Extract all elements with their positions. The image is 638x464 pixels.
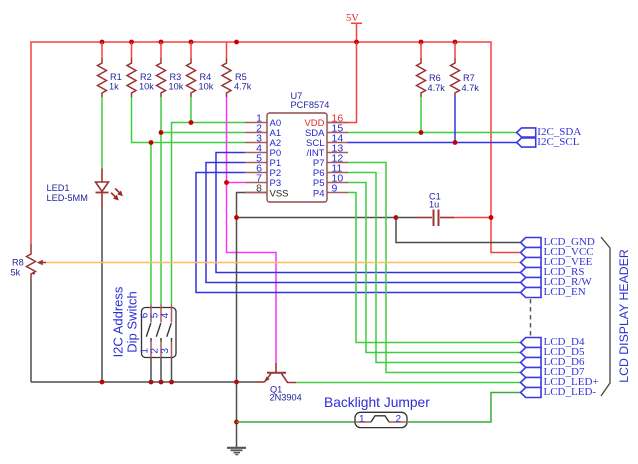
- resistor R4: [187, 42, 214, 97]
- wire R5 to P3 and backlight base: [227, 97, 277, 363]
- junction C1 right node: [489, 215, 494, 220]
- resistor R7: [451, 42, 480, 97]
- pin 13 /INT: [307, 142, 348, 159]
- transistor Q1: [257, 363, 302, 403]
- svg-text:LED1: LED1: [47, 183, 70, 193]
- svg-text:LCD DISPLAY HEADER: LCD DISPLAY HEADER: [617, 249, 631, 383]
- pin 10 P5: [313, 172, 348, 189]
- svg-text:R3: R3: [170, 72, 182, 82]
- wire P4 to LCD_D4: [347, 193, 520, 343]
- wire R8 bottom to ground rail: [30, 281, 32, 382]
- svg-text:VSS: VSS: [270, 189, 289, 200]
- junction P3/R5: [224, 180, 229, 185]
- dashed divider: [530, 299, 532, 337]
- pin 1 A0: [245, 112, 281, 129]
- wire P6 to LCD_D6: [347, 173, 520, 363]
- connector LCD_EN: [521, 286, 586, 298]
- connector LCD_D5: [521, 346, 585, 358]
- pin 3 A2: [245, 132, 281, 149]
- resistor R2: [127, 42, 154, 97]
- wire P0 to LCD_RS: [216, 153, 520, 273]
- resistor R6: [417, 42, 446, 97]
- dip switch pole 2 pins 5-2: [150, 305, 162, 383]
- ground rail: [31, 381, 257, 383]
- wire P7 to LCD_D7: [347, 163, 520, 373]
- wire gnd to jumper pin1: [237, 421, 356, 423]
- connector LCD_VCC: [521, 246, 594, 258]
- junction jumper gnd: [234, 420, 239, 425]
- junction dots on bus: [100, 40, 458, 45]
- wire Q1 collector to LCD_LED+: [296, 382, 520, 384]
- connector LCD_R/W: [521, 276, 593, 288]
- resistor R1: [98, 42, 122, 97]
- connector LCD_D6: [521, 356, 585, 368]
- pin 9 P4: [313, 182, 348, 199]
- junction A1/R3: [159, 130, 164, 135]
- svg-text:R6: R6: [429, 73, 441, 83]
- wire R7 to SCL: [454, 97, 456, 143]
- wire VSS to ground rail: [237, 193, 397, 383]
- svg-text:4.7k: 4.7k: [428, 83, 446, 93]
- wire R1 to LED1: [101, 97, 103, 169]
- svg-text:2: 2: [396, 414, 402, 425]
- svg-text:LCD_LED-: LCD_LED-: [544, 386, 597, 398]
- svg-text:I2C_SCL: I2C_SCL: [537, 136, 579, 148]
- wire P5 to LCD_D5: [347, 183, 520, 353]
- junction SDA/R6: [419, 130, 424, 135]
- LED LED1: [47, 169, 123, 208]
- wire GND row to LCD_GND: [396, 218, 520, 243]
- junction C1 left node: [394, 215, 399, 220]
- connector LCD_RS: [521, 266, 585, 278]
- wire R4 to A0: [190, 97, 192, 123]
- connector I2C_SDA: [517, 126, 582, 138]
- svg-text:P4: P4: [313, 189, 325, 200]
- pin 6 P2: [245, 162, 281, 179]
- wire SCL net: [347, 142, 517, 144]
- svg-text:I2C Address: I2C Address: [110, 286, 125, 357]
- ground symbol: [227, 382, 246, 455]
- wire A0 net to dip col3: [172, 123, 246, 305]
- wire VDD to 5V: [328, 42, 357, 123]
- svg-text:5k: 5k: [11, 268, 21, 278]
- junction A2/dip: [149, 140, 154, 145]
- pin 8 VSS: [245, 182, 289, 199]
- potentiometer R8: [11, 244, 47, 281]
- svg-text:2N3904: 2N3904: [270, 393, 302, 403]
- dip switch S1 body: [110, 286, 176, 357]
- svg-text:R2: R2: [140, 72, 152, 82]
- wire R2 to A2 net: [132, 97, 246, 143]
- svg-text:5: 5: [150, 312, 161, 318]
- svg-text:2: 2: [150, 348, 161, 354]
- connector LCD_GND: [521, 236, 595, 248]
- junction rail ground: [234, 380, 239, 385]
- svg-text:1k: 1k: [109, 82, 119, 92]
- connector LCD_D4: [521, 336, 585, 348]
- junction rail dip1: [149, 380, 154, 385]
- dip switch pole 3 pins 4-3: [160, 305, 172, 383]
- pin 15 SDA: [305, 122, 348, 139]
- pin 2 A1: [245, 122, 281, 139]
- resistor R3: [157, 42, 184, 97]
- svg-text:P3: P3: [270, 178, 282, 189]
- junction rail LED: [100, 380, 105, 385]
- svg-text:PCF8574: PCF8574: [291, 100, 330, 110]
- svg-text:R4: R4: [200, 72, 212, 82]
- pin 14 SCL: [306, 132, 348, 149]
- svg-text:R8: R8: [12, 258, 24, 268]
- connector I2C_SCL: [517, 136, 580, 148]
- svg-text:9: 9: [332, 182, 338, 194]
- wire LED1 to ground rail: [101, 207, 103, 382]
- svg-text:Backlight Jumper: Backlight Jumper: [324, 395, 430, 410]
- wire R6 to SDA: [420, 97, 422, 133]
- svg-text:LED-5MM: LED-5MM: [47, 193, 88, 203]
- svg-text:Dip Switch: Dip Switch: [125, 291, 140, 352]
- svg-text:LCD_EN: LCD_EN: [544, 286, 586, 298]
- wire P2 to LCD_EN: [196, 173, 520, 293]
- junction rail dip2: [159, 380, 164, 385]
- svg-text:1u: 1u: [429, 200, 439, 210]
- svg-text:10k: 10k: [139, 82, 154, 92]
- dip switch pole 1 pins 6-1: [140, 305, 152, 383]
- pin 16 VDD: [304, 112, 348, 129]
- op-amp U7 PCF8574 body: [267, 91, 329, 202]
- wire jumper pin2 to LCD_LED-: [407, 393, 520, 423]
- svg-text:10k: 10k: [199, 82, 214, 92]
- wire dip sw col1 drop: [150, 143, 152, 305]
- junction rail dip3: [169, 380, 174, 385]
- svg-text:4.7k: 4.7k: [462, 83, 480, 93]
- junction SCL/R7: [453, 140, 458, 145]
- wire SDA net: [347, 132, 517, 134]
- pin 11 P6: [313, 162, 348, 179]
- svg-text:P5: P5: [313, 178, 325, 189]
- capacitor C1: [396, 192, 491, 227]
- bracket LCD DISPLAY HEADER: [601, 237, 631, 396]
- wire R8 wiper to LCD_VEE: [46, 262, 520, 264]
- connector LCD_VEE: [521, 256, 593, 268]
- connector LCD_LED+: [521, 376, 599, 388]
- svg-text:10k: 10k: [169, 82, 184, 92]
- pin 12 P7: [313, 152, 348, 169]
- pin 4 P0: [245, 142, 281, 159]
- wire P1 to LCD_R/W: [206, 163, 520, 283]
- svg-text:8: 8: [256, 182, 262, 194]
- connector LCD_D7: [521, 366, 585, 378]
- svg-text:R7: R7: [463, 73, 475, 83]
- svg-text:3: 3: [160, 348, 171, 354]
- pin 5 P1: [245, 152, 281, 169]
- junction VSS node: [234, 215, 239, 220]
- wire R3 to A1 net and dip col2: [161, 97, 245, 305]
- backlight jumper JP1: [324, 395, 430, 428]
- svg-text:R5: R5: [235, 72, 247, 82]
- svg-text:5V: 5V: [346, 13, 359, 24]
- svg-text:4.7k: 4.7k: [234, 82, 252, 92]
- resistor R5: [222, 42, 252, 97]
- svg-text:4: 4: [160, 312, 171, 318]
- junction A0/R4: [189, 120, 194, 125]
- wire 5V top bus: [31, 42, 520, 253]
- svg-text:R1: R1: [110, 72, 122, 82]
- pin 7 P3: [245, 172, 281, 189]
- supply 5V symbol: [346, 13, 362, 42]
- svg-text:1: 1: [359, 414, 365, 425]
- connector LCD_LED-: [521, 386, 597, 398]
